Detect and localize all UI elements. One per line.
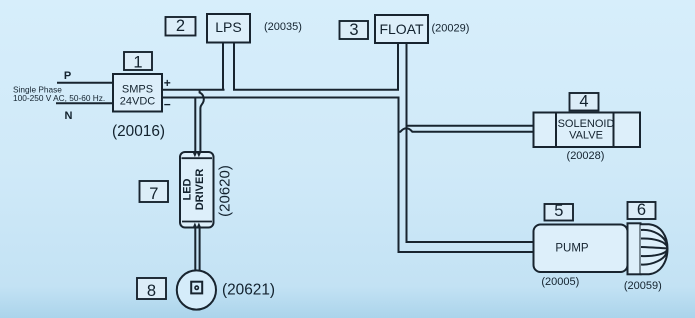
strainer dome [641, 224, 668, 274]
callout 1 [124, 52, 152, 71]
svg-text:(20621): (20621) [222, 282, 275, 299]
svg-text:1: 1 [133, 53, 142, 71]
svg-text:24VDC: 24VDC [120, 96, 156, 108]
label P [64, 70, 71, 82]
solenoid valve [534, 113, 641, 148]
svg-text:6: 6 [637, 201, 646, 219]
label (20035) [264, 21, 302, 33]
label (20028) [567, 150, 605, 162]
svg-text:8: 8 [147, 282, 156, 300]
svg-text:(20029): (20029) [432, 23, 470, 35]
label (20620) rotated [217, 165, 234, 217]
wire LED driver + lead with hop over 0V line [200, 90, 204, 153]
svg-text:SOLENOID: SOLENOID [558, 118, 615, 130]
label + terminal [164, 76, 171, 90]
wire P (AC phase input) [57, 82, 114, 84]
pump motor body [534, 225, 628, 273]
wire LPS left lead [222, 43, 224, 91]
callout 5 [545, 202, 574, 220]
svg-text:7: 7 [149, 185, 158, 203]
label (20621) [222, 282, 275, 299]
svg-text:VALVE: VALVE [569, 129, 603, 141]
svg-text:N: N [65, 110, 73, 122]
svg-text:DRIVER: DRIVER [194, 169, 206, 211]
label (20029) [432, 23, 470, 35]
svg-text:FLOAT: FLOAT [379, 21, 424, 37]
label (20005) [541, 276, 579, 288]
svg-text:LED: LED [182, 178, 194, 200]
callout 8 [137, 278, 166, 300]
label (20016) [112, 123, 165, 140]
wire LED driver - lead from 0V line [194, 98, 196, 153]
wire 0V bus: SMPS - to pump lower terminal [162, 98, 534, 253]
FLOAT switch [375, 15, 428, 43]
label AC supply spec [13, 85, 105, 104]
svg-text:P: P [64, 70, 71, 82]
callout 3 [340, 21, 369, 39]
svg-text:SMPS: SMPS [122, 84, 153, 96]
wire LED lamp left lead [194, 228, 196, 271]
LED lamp [177, 270, 216, 309]
svg-text:4: 4 [579, 93, 588, 111]
SMPS power supply U1 [113, 74, 162, 112]
svg-text:(20035): (20035) [264, 21, 302, 33]
callout 2 [166, 17, 196, 36]
svg-text:2: 2 [176, 17, 185, 35]
svg-text:(20005): (20005) [541, 276, 579, 288]
wire +24V from LPS right lead to FLOAT left lead [233, 43, 398, 90]
wire N (AC neutral input) [56, 102, 114, 104]
svg-text:(20059): (20059) [624, 280, 662, 292]
wire switched +24V branch to solenoid upper terminal [407, 125, 534, 127]
label (20059) [624, 280, 662, 292]
svg-text:(20620): (20620) [217, 165, 234, 217]
svg-text:−: − [164, 97, 171, 111]
wire LED lamp right lead [199, 228, 201, 271]
wire LPS right lead [233, 43, 235, 91]
callout 6 [628, 201, 656, 219]
svg-text:3: 3 [349, 21, 358, 39]
svg-text:(20028): (20028) [567, 150, 605, 162]
callout 4 [570, 93, 599, 111]
svg-text:LPS: LPS [215, 19, 241, 35]
svg-text:5: 5 [554, 202, 563, 220]
callout 7 [140, 181, 169, 203]
wire +24V from SMPS+ to LPS left lead [162, 89, 225, 91]
pump coupler collar [628, 223, 641, 274]
LED driver [180, 152, 214, 228]
wire 0V branch to solenoid lower terminal with hop over switched bus [399, 128, 534, 132]
label N [65, 110, 73, 122]
LPS low pressure switch [207, 14, 250, 43]
wire switched +24V bus: FLOAT right lead to pump upper terminal [407, 43, 534, 242]
svg-text:+: + [164, 76, 171, 90]
svg-text:(20016): (20016) [112, 123, 165, 140]
svg-text:100-250 V AC, 50-60 Hz.: 100-250 V AC, 50-60 Hz. [13, 93, 105, 103]
label - terminal [164, 97, 171, 111]
svg-text:PUMP: PUMP [555, 243, 589, 255]
